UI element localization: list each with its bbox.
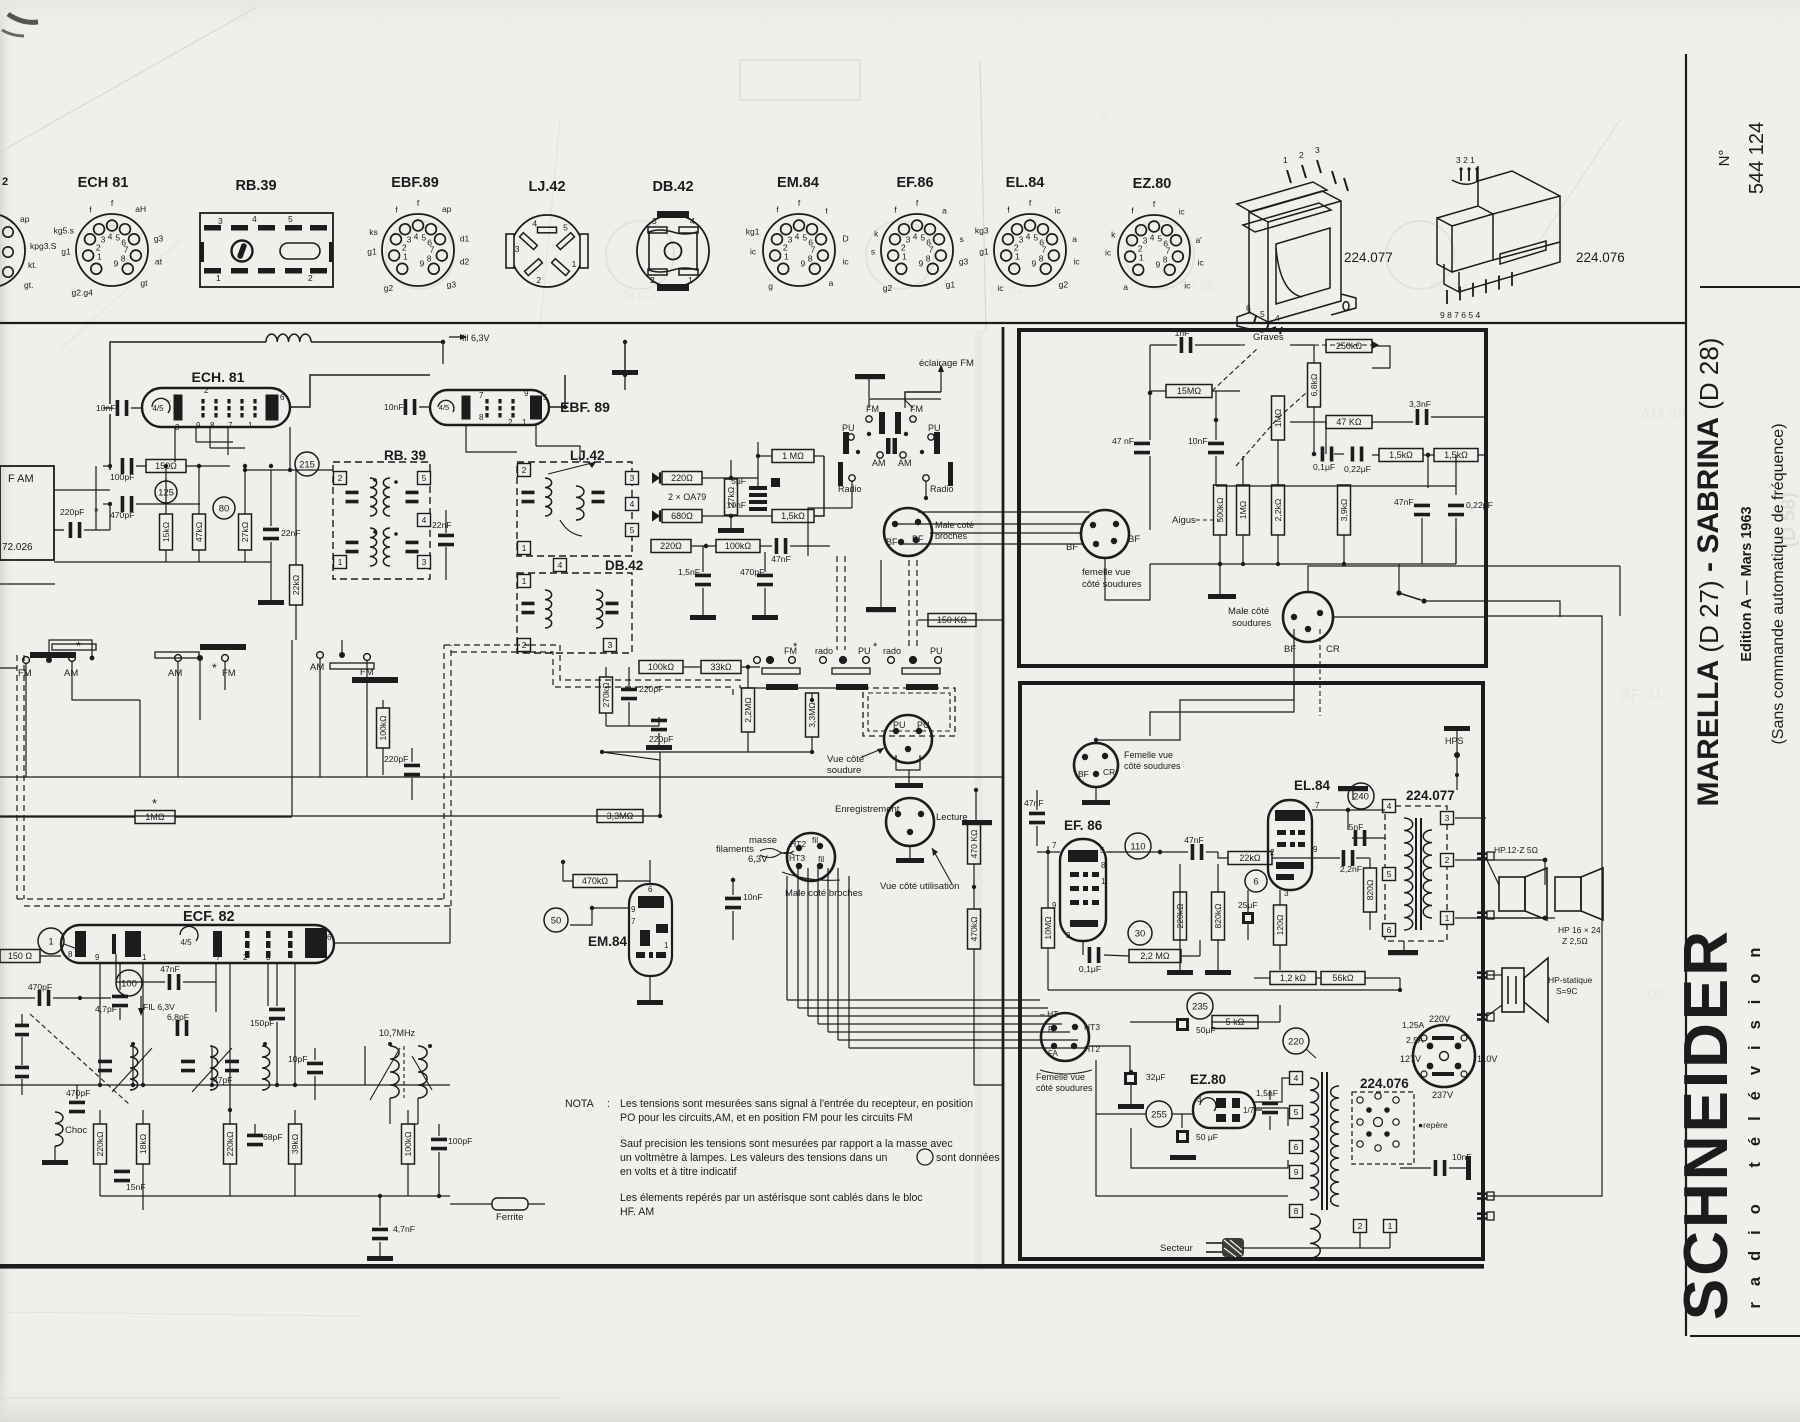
wire ECF82 pin6 to bus <box>334 908 450 943</box>
svg-text:2: 2 <box>1445 855 1450 865</box>
svg-text:15kΩ: 15kΩ <box>161 521 171 542</box>
wire sidebar vertical rule <box>1685 54 1687 1336</box>
svg-text:33kΩ: 33kΩ <box>710 662 732 672</box>
wire EBF89 pin drops <box>466 425 517 452</box>
svg-text:7: 7 <box>631 917 636 926</box>
svg-text:100pF: 100pF <box>110 472 134 482</box>
svg-text:4: 4 <box>1150 232 1155 242</box>
svg-text:2: 2 <box>2 176 8 188</box>
connector PU vue cote soudure <box>884 715 932 763</box>
svg-text:g3: g3 <box>154 233 164 243</box>
svg-text:EZ.80: EZ.80 <box>1190 1072 1226 1087</box>
resistor 100kΩ <box>377 708 390 748</box>
svg-text:AM: AM <box>64 668 78 679</box>
connector femelle HT <box>1041 1013 1089 1061</box>
ground 220pF <box>646 745 672 750</box>
svg-text:22kΩ: 22kΩ <box>1239 853 1261 863</box>
pin 2 <box>334 472 347 485</box>
resistor 56kΩ <box>1321 972 1365 985</box>
wire ECH81 to EBF89 filament <box>290 375 430 407</box>
connector male filaments <box>787 833 835 881</box>
svg-text:EF. 86: EF. 86 <box>1064 818 1103 833</box>
capacitor <box>15 1066 29 1079</box>
svg-text:a: a <box>829 278 834 288</box>
svg-text:47nF: 47nF <box>1024 798 1044 808</box>
capacitor 50uF b <box>1176 1130 1218 1143</box>
resistor 15kΩ <box>160 514 173 550</box>
svg-text:Lecture: Lecture <box>936 812 968 823</box>
svg-text:3: 3 <box>1197 1095 1202 1104</box>
resistor 1MΩ <box>1272 396 1285 440</box>
svg-text:●repère: ●repère <box>1418 1120 1448 1130</box>
svg-text:F AM: F AM <box>8 473 34 485</box>
ground 1,5nF <box>690 615 716 620</box>
svg-text:100kΩ: 100kΩ <box>648 662 675 672</box>
resistor 39kΩ <box>289 1124 302 1164</box>
svg-text:7: 7 <box>1052 841 1057 850</box>
capacitor <box>522 491 535 504</box>
svg-text:6: 6 <box>327 933 332 942</box>
ground 32uF <box>1118 1104 1144 1109</box>
pin 6 <box>1290 1141 1303 1154</box>
svg-text:Femelle vue: Femelle vue <box>1124 750 1173 760</box>
svg-text:1: 1 <box>142 953 147 962</box>
svg-text:LJ.42: LJ.42 <box>570 448 605 463</box>
resistor 150 Ω <box>0 950 40 963</box>
svg-text:EBF. 89: EBF. 89 <box>560 399 610 415</box>
svg-text:500kΩ: 500kΩ <box>1215 497 1225 523</box>
capacitor 470pF <box>110 496 134 520</box>
svg-text:PU: PU <box>893 720 906 730</box>
tube socket RB.39 <box>200 178 333 287</box>
voltage selector circle <box>1400 1014 1497 1100</box>
svg-text:d2: d2 <box>460 257 470 267</box>
svg-text:AM: AM <box>872 458 886 468</box>
svg-text:a: a <box>1072 234 1077 244</box>
capacitor <box>346 491 359 504</box>
wire tuner verticals <box>132 1046 134 1085</box>
resistor 220kΩ <box>1174 892 1187 940</box>
svg-text:1: 1 <box>1388 1221 1393 1231</box>
svg-text:EF.86: EF.86 <box>896 175 933 191</box>
resistor 22kΩ <box>1228 852 1272 865</box>
svg-text:2: 2 <box>1299 150 1304 160</box>
diode <box>652 472 660 483</box>
capacitor 47nF <box>1184 835 1204 860</box>
svg-text:3: 3 <box>101 234 106 244</box>
svg-text:éclairage FM: éclairage FM <box>919 358 974 369</box>
block HF AM <box>0 466 54 560</box>
svg-text:4: 4 <box>252 214 257 224</box>
ground 470pF b <box>752 615 778 620</box>
svg-text:47nF: 47nF <box>1394 497 1414 507</box>
svg-text:1,5kΩ: 1,5kΩ <box>781 511 805 521</box>
svg-text:4: 4 <box>630 499 635 509</box>
svg-text:ap: ap <box>20 214 30 224</box>
pin 3 <box>418 556 431 569</box>
wires psu <box>1154 989 1400 991</box>
resistor 47 KΩ <box>1326 416 1372 429</box>
resistor 220kΩ <box>94 1124 107 1164</box>
capacitor 10nF <box>725 892 763 909</box>
svg-text:4,7nF: 4,7nF <box>393 1224 415 1234</box>
svg-text:4: 4 <box>422 515 427 525</box>
svg-text:2: 2 <box>243 953 248 962</box>
svg-text::: : <box>607 1098 610 1110</box>
svg-text:SCHNEIDER: SCHNEIDER <box>1672 928 1741 1320</box>
svg-text:8: 8 <box>427 254 432 264</box>
svg-text:1,5nF: 1,5nF <box>678 567 700 577</box>
capacitor 1,5nF <box>1256 1088 1278 1114</box>
wire diag dashed tuner <box>30 1014 130 1105</box>
capacitor <box>406 491 419 504</box>
node voltage 255 <box>1146 1101 1172 1127</box>
svg-text:HP-statique: HP-statique <box>1548 975 1593 985</box>
svg-text:s: s <box>960 234 964 244</box>
capacitor 5uF 10nF <box>727 476 780 511</box>
resistor 250kΩ <box>1326 340 1372 353</box>
transformer LJ.42 <box>517 448 632 556</box>
resistor 100kΩ <box>716 540 760 553</box>
svg-text:BF: BF <box>1078 769 1089 779</box>
connector femelle amp <box>1074 743 1118 787</box>
capacitor <box>346 541 359 554</box>
svg-text:AM: AM <box>898 458 912 468</box>
pin 4 <box>1383 800 1396 813</box>
svg-text:(Sans commande automatique de: (Sans commande automatique de fréquence) <box>1770 423 1787 744</box>
svg-text:22nF: 22nF <box>432 520 452 530</box>
wires diode row <box>702 477 758 479</box>
svg-text:HT3: HT3 <box>789 853 805 863</box>
capacitor 220pF <box>649 719 673 744</box>
svg-text:9: 9 <box>113 259 118 269</box>
svg-text:470pF: 470pF <box>740 567 764 577</box>
capacitor <box>406 541 419 554</box>
wire secteur <box>1244 1247 1390 1249</box>
svg-text:3: 3 <box>407 234 412 244</box>
svg-text:PU: PU <box>928 423 941 433</box>
pin 2 <box>1441 854 1454 867</box>
svg-text:EM 84: EM 84 <box>1430 280 1468 295</box>
svg-text:47nF: 47nF <box>160 964 180 974</box>
dashed PU box <box>863 688 955 736</box>
svg-text:4: 4 <box>414 231 419 241</box>
capacitor 10nF <box>1434 1152 1472 1176</box>
svg-text:270kΩ: 270kΩ <box>601 682 611 708</box>
svg-text:9: 9 <box>419 259 424 269</box>
svg-text:EL 84: EL 84 <box>990 283 1024 298</box>
svg-text:100: 100 <box>121 978 137 989</box>
svg-text:2,2kΩ: 2,2kΩ <box>1273 498 1283 521</box>
svg-text:10MΩ: 10MΩ <box>1043 916 1053 940</box>
ground 50uF b <box>1170 1155 1196 1160</box>
svg-text:8: 8 <box>210 421 215 430</box>
switch FM AM pair2 <box>155 644 246 679</box>
svg-text:1MΩ: 1MΩ <box>1238 500 1248 519</box>
svg-text:470pF: 470pF <box>66 1088 90 1098</box>
svg-text:BF: BF <box>912 534 924 544</box>
svg-text:1/7: 1/7 <box>1243 1106 1255 1115</box>
svg-text:6: 6 <box>1246 303 1251 313</box>
svg-text:05: 05 <box>1648 987 1666 1004</box>
svg-text:3: 3 <box>906 234 911 244</box>
capacitor <box>15 1024 29 1037</box>
svg-text:fil 6,3V: fil 6,3V <box>462 333 490 343</box>
pin 1 <box>1384 1220 1397 1233</box>
svg-text:Les tensions sont mesurées san: Les tensions sont mesurées sans signal à… <box>620 1098 973 1110</box>
svg-text:AM: AM <box>168 668 182 679</box>
tube ECH.81 <box>142 388 290 427</box>
capacitor 5nF <box>1349 822 1367 846</box>
svg-text:9: 9 <box>1294 1167 1299 1177</box>
svg-text:47nF: 47nF <box>771 554 791 564</box>
svg-text:g1: g1 <box>61 247 71 257</box>
pin 8 <box>1290 1205 1303 1218</box>
svg-text:220pF: 220pF <box>60 507 84 517</box>
wire left rail y562 <box>54 561 271 563</box>
svg-text:3: 3 <box>218 216 223 226</box>
svg-text:5nF: 5nF <box>1349 822 1364 832</box>
svg-text:s: s <box>871 247 875 257</box>
svg-text:côté soudures: côté soudures <box>1124 761 1181 771</box>
resistor 150 KΩ <box>928 614 976 627</box>
svg-text:47nF: 47nF <box>1184 835 1204 845</box>
svg-text:FIL 6,3V: FIL 6,3V <box>143 1002 175 1012</box>
svg-text:1: 1 <box>522 576 527 586</box>
pin 5 <box>1290 1106 1303 1119</box>
svg-text:1: 1 <box>403 251 408 261</box>
svg-text:kg5.s: kg5.s <box>54 226 74 236</box>
pin 1 <box>1441 912 1454 925</box>
svg-text:47 KΩ: 47 KΩ <box>1336 417 1362 427</box>
pin 4 <box>418 514 431 527</box>
svg-text:côté soudures: côté soudures <box>1036 1083 1093 1093</box>
svg-text:5: 5 <box>630 525 635 535</box>
svg-text:PO pour les circuits,AM, et en: PO pour les circuits,AM, et en position … <box>620 1112 913 1124</box>
wire amp box border <box>1020 683 1483 1259</box>
switch tone right <box>1396 590 1426 603</box>
svg-text:2: 2 <box>308 273 313 283</box>
svg-text:ic: ic <box>843 257 850 267</box>
svg-text:1,5nF: 1,5nF <box>1256 1088 1278 1098</box>
svg-text:ic: ic <box>1198 258 1205 268</box>
svg-text:1: 1 <box>216 273 221 283</box>
svg-text:0,1μF: 0,1μF <box>1313 462 1335 472</box>
svg-text:Z 2,5Ω: Z 2,5Ω <box>1562 936 1588 946</box>
ground mid <box>866 607 896 612</box>
svg-text:6: 6 <box>648 885 653 894</box>
dashed bus vertical pair mid <box>836 556 838 650</box>
svg-text:100kΩ: 100kΩ <box>403 1131 413 1157</box>
svg-text:100pF: 100pF <box>448 1136 472 1146</box>
svg-text:1: 1 <box>784 251 789 261</box>
svg-text:10nF: 10nF <box>1188 436 1208 446</box>
wire sidebar divider bottom <box>1690 1335 1800 1337</box>
svg-text:6: 6 <box>280 393 285 402</box>
svg-text:a: a <box>942 206 947 216</box>
svg-text:6,3V: 6,3V <box>748 854 768 865</box>
svg-text:FM: FM <box>18 668 32 679</box>
svg-text:ic: ic <box>750 247 757 257</box>
ground PU <box>895 783 923 788</box>
svg-text:HT2: HT2 <box>790 839 806 849</box>
ground output <box>1388 950 1418 955</box>
wire EM84 bottom <box>649 976 651 1000</box>
svg-text:HF. AM: HF. AM <box>620 1206 654 1218</box>
svg-text:EL.84: EL.84 <box>1006 175 1045 191</box>
svg-text:RB.39: RB.39 <box>235 178 276 194</box>
capacitor 100pF <box>431 1136 472 1150</box>
svg-text:g1: g1 <box>367 247 377 257</box>
svg-text:08 G3: 08 G3 <box>620 288 655 303</box>
svg-text:72.026: 72.026 <box>2 542 33 553</box>
svg-text:Secteur: Secteur <box>1160 1243 1193 1254</box>
resistor 27kΩ <box>239 514 252 550</box>
svg-text:3: 3 <box>1143 235 1148 245</box>
IF transformer 10,7MHz <box>370 1028 432 1100</box>
svg-text:4: 4 <box>558 560 563 570</box>
svg-text:15MΩ: 15MΩ <box>1177 386 1202 396</box>
resistor 470 KΩ <box>968 824 981 864</box>
svg-text:4: 4 <box>913 231 918 241</box>
resistor 820kΩ <box>1212 892 1225 940</box>
svg-text:gt.: gt. <box>24 280 33 290</box>
svg-text:2: 2 <box>522 465 527 475</box>
ground amp mid <box>1167 970 1193 975</box>
svg-text:220pF: 220pF <box>639 684 663 694</box>
capacitor <box>225 1060 239 1073</box>
svg-text:AM: AM <box>310 662 324 673</box>
wires route to right block <box>787 999 1040 1001</box>
ground femelle amp <box>1082 800 1110 805</box>
wires switch pairs <box>25 663 27 690</box>
svg-text:9: 9 <box>95 953 100 962</box>
junction dots <box>164 464 168 468</box>
resistor 220Ω <box>662 472 702 485</box>
svg-text:0,22μF: 0,22μF <box>1344 464 1371 474</box>
transformer 224.076 power <box>1310 1072 1409 1258</box>
svg-text:8: 8 <box>1039 254 1044 264</box>
capacitor <box>522 602 535 615</box>
speaker HP statique <box>1502 958 1593 1022</box>
pin 3 <box>604 639 617 652</box>
resistor 100kΩ <box>402 1124 415 1164</box>
svg-text:10,7MHz: 10,7MHz <box>379 1028 416 1038</box>
wires amp top <box>1096 680 1294 740</box>
svg-text:1nF: 1nF <box>1175 328 1190 338</box>
svg-text:100kΩ: 100kΩ <box>378 715 388 741</box>
svg-text:470pF: 470pF <box>28 982 52 992</box>
transformer 224.077 drawing <box>1237 145 1393 334</box>
svg-text:220: 220 <box>1288 1036 1304 1047</box>
capacitor 47nF <box>160 964 180 990</box>
svg-text:8: 8 <box>68 950 73 959</box>
svg-text:1 MΩ: 1 MΩ <box>782 451 804 461</box>
svg-text:*: * <box>793 641 798 653</box>
svg-text:soudures: soudures <box>1232 618 1271 629</box>
svg-text:EZ.80: EZ.80 <box>1133 176 1172 192</box>
dashed bus right vertical <box>443 645 445 899</box>
switch FM AM pair1 <box>18 639 96 679</box>
transformer 224.076 drawing <box>1437 155 1625 320</box>
capacitor <box>1321 447 1334 462</box>
svg-text:ic: ic <box>997 283 1004 293</box>
connector male cote broches <box>884 508 932 556</box>
svg-text:215: 215 <box>299 459 315 470</box>
node voltage 100 <box>116 970 142 996</box>
svg-text:3: 3 <box>175 423 180 432</box>
svg-text:8: 8 <box>1294 1206 1299 1216</box>
svg-text:aH: aH <box>135 204 146 214</box>
svg-text:4: 4 <box>690 216 695 226</box>
svg-text:D: D <box>843 233 849 243</box>
connector male masse filaments <box>716 833 863 899</box>
svg-text:1: 1 <box>1139 252 1144 262</box>
capacitor 10nF <box>384 399 416 415</box>
svg-text:2,2 MΩ: 2,2 MΩ <box>1140 951 1170 961</box>
svg-text:*: * <box>873 641 878 653</box>
svg-text:1: 1 <box>572 259 577 269</box>
svg-text:237V: 237V <box>1432 1090 1453 1100</box>
tube socket EZ.80 <box>1105 176 1204 292</box>
svg-text:5: 5 <box>115 232 120 242</box>
svg-text:ic: ic <box>1074 257 1081 267</box>
svg-text:220pF: 220pF <box>649 734 673 744</box>
svg-text:1: 1 <box>902 251 907 261</box>
svg-text:Vue côté: Vue côté <box>827 754 864 765</box>
terminal <box>1477 1013 1494 1021</box>
svg-text:8: 8 <box>808 254 813 264</box>
capacitor <box>181 1060 195 1073</box>
svg-text:3: 3 <box>515 244 520 254</box>
capacitor 25uF <box>1238 900 1258 924</box>
wire ECH81 left drop <box>109 414 111 470</box>
svg-text:22nF: 22nF <box>281 528 301 538</box>
svg-text:g1: g1 <box>946 280 956 290</box>
node voltage 80 <box>213 497 235 519</box>
pin 3 <box>626 472 639 485</box>
switch FM AM pair3 <box>310 652 398 683</box>
capacitor 4,7pF <box>95 995 128 1014</box>
tube socket EF.86 <box>871 175 969 293</box>
svg-text:1: 1 <box>522 418 527 427</box>
svg-text:g3: g3 <box>447 280 457 290</box>
resistor 1,5kΩ <box>1379 449 1423 462</box>
svg-text:220kΩ: 220kΩ <box>95 1131 105 1157</box>
svg-text:220V: 220V <box>1429 1014 1450 1024</box>
capacitor 10nF <box>1188 436 1224 454</box>
svg-text:470 KΩ: 470 KΩ <box>969 829 979 858</box>
capacitor 220pF <box>384 754 420 776</box>
capacitor 1,5nF <box>678 567 711 586</box>
svg-text:2: 2 <box>1358 1221 1363 1231</box>
svg-text:3: 3 <box>608 640 613 650</box>
svg-text:ks: ks <box>369 227 378 237</box>
svg-text:224.077: 224.077 <box>1406 788 1455 803</box>
svg-text:2: 2 <box>536 275 541 285</box>
svg-text:FM: FM <box>910 404 923 414</box>
pin 2 <box>518 464 531 477</box>
wire 470k col <box>973 990 975 1085</box>
node voltage 215 <box>295 452 319 476</box>
node voltage 125 <box>155 481 177 503</box>
svg-text:3: 3 <box>1315 145 1320 155</box>
resistor 2,2kΩ <box>1272 485 1285 535</box>
svg-text:5: 5 <box>1100 846 1105 855</box>
svg-text:– HT: – HT <box>1040 1009 1058 1019</box>
plug Secteur <box>1160 1238 1244 1257</box>
svg-text:4/5: 4/5 <box>152 404 164 413</box>
